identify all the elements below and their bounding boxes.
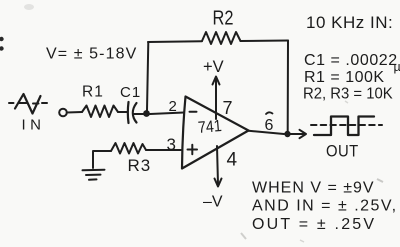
svg-text:–V: –V (203, 194, 223, 211)
svg-text:V= ± 5-18V: V= ± 5-18V (46, 46, 137, 63)
wire feedback vertical (147, 42, 148, 111)
wire pin 6 (249, 131, 285, 134)
resistor R2 (202, 32, 241, 44)
svg-text:R3: R3 (128, 156, 152, 175)
svg-text:741: 741 (197, 117, 222, 137)
op-amp U1 triangle (182, 97, 249, 169)
svg-text:OUT = ± .25V: OUT = ± .25V (252, 216, 376, 233)
svg-text:R1 = 100K: R1 = 100K (304, 69, 385, 86)
svg-text:IN: IN (22, 117, 46, 134)
wire node to pin 2 (150, 113, 184, 115)
svg-text:R2: R2 (213, 6, 234, 29)
svg-text:WHEN V = ±9V: WHEN V = ±9V (252, 180, 375, 197)
svg-text:C1 = .00022: C1 = .00022 (304, 52, 398, 69)
svg-text:R1: R1 (82, 84, 104, 101)
colon mark left edge (0, 37, 4, 51)
-V supply arrow (217, 146, 218, 185)
resistor R3 (111, 143, 146, 154)
svg-text:µ: µ (394, 60, 400, 74)
svg-text:2: 2 (169, 98, 177, 115)
wire right vertical (287, 41, 289, 132)
output arrow (291, 133, 305, 135)
node A junction dot (143, 110, 150, 117)
non-inverting input plus (188, 145, 198, 154)
wire C1 to node (134, 113, 145, 115)
wire terminal to R1 (67, 111, 82, 114)
wire top rail left (148, 40, 202, 43)
svg-text:4: 4 (227, 150, 238, 171)
svg-text:R2, R3 = 10K: R2, R3 = 10K (303, 85, 393, 103)
smudge top (24, 4, 34, 10)
input terminal (59, 109, 67, 117)
svg-text:6: 6 (265, 117, 274, 134)
svg-text:3: 3 (167, 135, 176, 154)
wire R3 to pin 3 (146, 149, 181, 151)
svg-text:OUT: OUT (326, 143, 359, 161)
capacitor C1 (127, 102, 130, 123)
wire top rail right (241, 40, 289, 43)
ground (83, 170, 105, 180)
svg-text:+V: +V (203, 58, 224, 76)
svg-text:AND IN = ± .25V,: AND IN = ± .25V, (252, 198, 398, 215)
inverting input minus (190, 111, 197, 113)
output waveform symbol (311, 124, 382, 126)
resistor R1 (82, 106, 118, 118)
svg-text:7: 7 (223, 98, 233, 118)
faint specks bottom right (377, 179, 383, 182)
wire R3 left + ground stem (93, 151, 111, 168)
svg-text:10 KHz IN:: 10 KHz IN: (306, 13, 393, 32)
output node junction dot (284, 131, 290, 137)
svg-text:C1: C1 (120, 84, 141, 101)
input waveform symbol (15, 94, 41, 114)
wire R1 to C1 (118, 111, 128, 113)
+V supply arrow (215, 78, 217, 119)
